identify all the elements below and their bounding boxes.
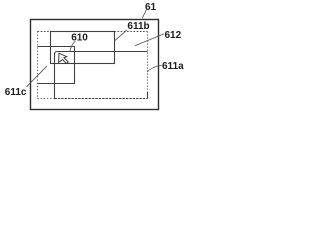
leader line for label 612 <box>135 34 164 46</box>
leader line for label 611a (curved) <box>147 65 162 72</box>
svg-text:611c: 611c <box>5 87 27 98</box>
window 611a (large rectangle, rounded top-left corner) <box>55 52 148 98</box>
svg-text:611b: 611b <box>127 21 149 32</box>
cursor 610 (pointer arrow) <box>59 53 69 63</box>
leader line for label 61 <box>142 10 146 18</box>
window 611b (wide solid rectangle) <box>51 32 115 64</box>
leader line for label 611c <box>27 66 47 87</box>
leader line for label 611b <box>114 30 127 41</box>
window 611c (left rectangle, left edge on dashed boundary) <box>38 47 75 84</box>
display area 612 bottom dashed edge (left sparse part) <box>38 98 55 100</box>
display frame 61 (outer rectangle) <box>31 20 159 110</box>
window 611a right edge lower solid part <box>147 92 149 99</box>
svg-text:610: 610 <box>71 32 88 43</box>
display area 612 bottom dashed edge (right dense part) <box>55 98 148 100</box>
display area 612 right dashed edge <box>147 32 149 94</box>
svg-text:61: 61 <box>145 2 157 13</box>
leader line for label 610 (curved) <box>70 41 76 51</box>
svg-text:612: 612 <box>165 30 182 41</box>
svg-text:611a: 611a <box>162 61 184 72</box>
display area 612 left dashed edge <box>37 32 39 99</box>
display area 612 top dashed edge <box>38 31 148 33</box>
